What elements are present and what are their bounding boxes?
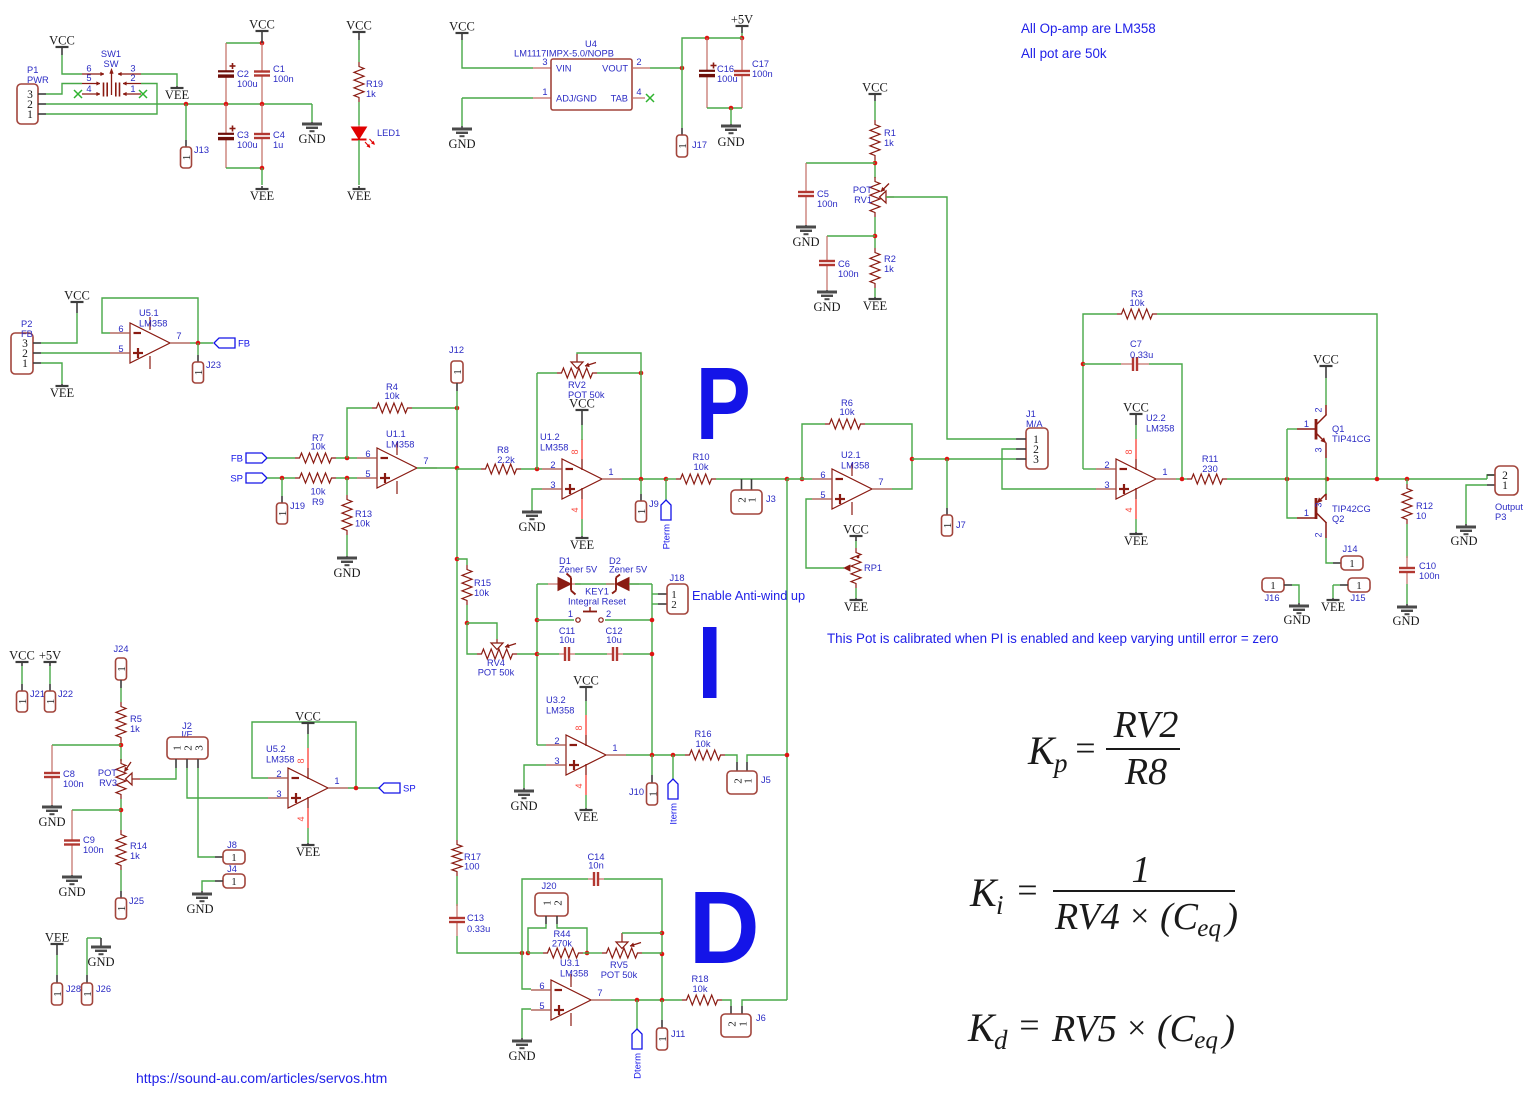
svg-text:=: = bbox=[1017, 1005, 1041, 1045]
svg-text:0.33u: 0.33u bbox=[467, 924, 490, 934]
svg-text:GND: GND bbox=[1283, 613, 1310, 627]
svg-text:1: 1 bbox=[277, 511, 289, 517]
svg-text:J7: J7 bbox=[956, 520, 966, 530]
svg-text:1k: 1k bbox=[884, 264, 894, 274]
svg-text:3: 3 bbox=[130, 64, 135, 74]
svg-text:10u: 10u bbox=[559, 635, 575, 645]
svg-text:VCC: VCC bbox=[1313, 353, 1339, 367]
svg-text:1u: 1u bbox=[273, 140, 283, 150]
svg-text:1: 1 bbox=[608, 467, 613, 477]
svg-text:R8: R8 bbox=[1124, 751, 1167, 793]
svg-text:8: 8 bbox=[1124, 449, 1134, 454]
svg-text:TIP42CG: TIP42CG bbox=[1332, 504, 1371, 514]
svg-text:3: 3 bbox=[550, 480, 555, 490]
svg-text:1: 1 bbox=[542, 87, 547, 97]
svg-text:VCC: VCC bbox=[862, 81, 888, 95]
svg-text:10u: 10u bbox=[606, 635, 622, 645]
svg-text:C16: C16 bbox=[717, 64, 734, 74]
svg-text:J23: J23 bbox=[206, 360, 221, 370]
svg-text:7: 7 bbox=[878, 477, 883, 487]
svg-text:VEE: VEE bbox=[574, 810, 599, 824]
svg-text:VEE: VEE bbox=[296, 845, 321, 859]
svg-text:R19: R19 bbox=[366, 79, 383, 89]
svg-text:J8: J8 bbox=[227, 840, 237, 850]
svg-text:1: 1 bbox=[1502, 480, 1508, 492]
svg-text:1: 1 bbox=[116, 906, 128, 912]
svg-text:C8: C8 bbox=[63, 769, 75, 779]
svg-text:3: 3 bbox=[194, 745, 206, 751]
svg-text:GND: GND bbox=[1392, 614, 1419, 628]
svg-text:+5V: +5V bbox=[731, 13, 753, 27]
svg-text:VEE: VEE bbox=[250, 189, 275, 203]
svg-text:3: 3 bbox=[542, 57, 547, 67]
svg-text:2: 2 bbox=[130, 73, 135, 83]
svg-text:Enable Anti-wind up: Enable Anti-wind up bbox=[692, 588, 805, 603]
svg-text:VOUT: VOUT bbox=[602, 64, 628, 74]
svg-text:1: 1 bbox=[747, 497, 759, 503]
svg-text:GND: GND bbox=[792, 235, 819, 249]
svg-text:10k: 10k bbox=[474, 588, 489, 598]
svg-text:P: P bbox=[696, 346, 751, 461]
svg-text:J1: J1 bbox=[1026, 409, 1036, 419]
svg-text:VCC: VCC bbox=[9, 649, 35, 663]
svg-text:1k: 1k bbox=[884, 138, 894, 148]
svg-text:2: 2 bbox=[1104, 460, 1109, 470]
svg-text:2: 2 bbox=[606, 609, 611, 619]
svg-text:J19: J19 bbox=[290, 501, 305, 511]
svg-text:10k: 10k bbox=[355, 519, 370, 529]
svg-text:1k: 1k bbox=[366, 89, 376, 99]
svg-text:3: 3 bbox=[276, 789, 281, 799]
svg-text:RV4: RV4 bbox=[487, 658, 505, 668]
svg-text:1: 1 bbox=[677, 143, 689, 149]
svg-text:J6: J6 bbox=[756, 1013, 766, 1023]
svg-text:GND: GND bbox=[508, 1049, 535, 1063]
svg-text:R5: R5 bbox=[130, 714, 142, 724]
svg-text:J22: J22 bbox=[58, 689, 73, 699]
svg-text:6: 6 bbox=[365, 449, 370, 459]
svg-text:LM358: LM358 bbox=[540, 443, 568, 453]
svg-text:RV1: RV1 bbox=[854, 195, 872, 205]
svg-text:https://sound-au.com/articles/: https://sound-au.com/articles/servos.htm bbox=[136, 1070, 387, 1086]
svg-text:4: 4 bbox=[86, 84, 91, 94]
svg-text:1: 1 bbox=[1304, 508, 1309, 518]
svg-text:VCC: VCC bbox=[573, 674, 599, 688]
svg-text:This Pot is calibrated when PI: This Pot is calibrated when PI is enable… bbox=[827, 631, 1278, 646]
svg-text:R17: R17 bbox=[464, 852, 481, 862]
svg-text:1: 1 bbox=[27, 109, 33, 121]
svg-text:C9: C9 bbox=[83, 835, 95, 845]
svg-text:J25: J25 bbox=[129, 896, 144, 906]
svg-text:R2: R2 bbox=[884, 254, 896, 264]
svg-text:R9: R9 bbox=[312, 497, 324, 507]
svg-text:J26: J26 bbox=[96, 984, 111, 994]
svg-text:RV2: RV2 bbox=[1113, 704, 1179, 746]
svg-text:5: 5 bbox=[365, 469, 370, 479]
svg-text:1: 1 bbox=[942, 523, 954, 529]
svg-text:VEE: VEE bbox=[1124, 534, 1149, 548]
svg-text:4: 4 bbox=[636, 87, 641, 97]
svg-text:K: K bbox=[969, 870, 999, 915]
svg-text:1: 1 bbox=[1304, 419, 1309, 429]
svg-text:2: 2 bbox=[1314, 407, 1324, 412]
svg-text:J28: J28 bbox=[66, 984, 81, 994]
svg-text:=: = bbox=[1015, 870, 1039, 910]
svg-text:1: 1 bbox=[1349, 558, 1355, 570]
svg-text:3: 3 bbox=[1314, 447, 1324, 452]
svg-text:3: 3 bbox=[1104, 480, 1109, 490]
svg-text:SP: SP bbox=[403, 784, 416, 795]
svg-text:1: 1 bbox=[657, 1036, 669, 1042]
svg-text:4: 4 bbox=[296, 816, 306, 821]
svg-text:×: × bbox=[1128, 898, 1151, 935]
svg-text:1: 1 bbox=[334, 776, 339, 786]
svg-text:270k: 270k bbox=[552, 939, 573, 949]
svg-text:U1.2: U1.2 bbox=[540, 432, 560, 442]
svg-text:VCC: VCC bbox=[1123, 401, 1149, 415]
svg-text:(C: (C bbox=[1160, 896, 1199, 938]
svg-text:LM358: LM358 bbox=[1146, 424, 1174, 434]
svg-text:5: 5 bbox=[539, 1001, 544, 1011]
svg-text:VCC: VCC bbox=[64, 289, 90, 303]
svg-text:8: 8 bbox=[574, 725, 584, 730]
svg-text:GND: GND bbox=[298, 132, 325, 146]
svg-text:Zener 5V: Zener 5V bbox=[559, 565, 598, 575]
svg-text:VEE: VEE bbox=[165, 88, 190, 102]
svg-text:VEE: VEE bbox=[45, 931, 70, 945]
svg-text:J15: J15 bbox=[1351, 593, 1366, 603]
svg-text:1: 1 bbox=[636, 509, 648, 515]
svg-text:LM358: LM358 bbox=[560, 969, 588, 979]
svg-text:2: 2 bbox=[636, 57, 641, 67]
svg-text:VCC: VCC bbox=[49, 34, 75, 48]
svg-text:3: 3 bbox=[554, 756, 559, 766]
svg-text:2.2k: 2.2k bbox=[497, 455, 515, 465]
svg-text:10: 10 bbox=[1416, 511, 1426, 521]
svg-text:D: D bbox=[689, 871, 760, 986]
svg-text:1: 1 bbox=[648, 791, 660, 797]
svg-text:FB: FB bbox=[231, 454, 243, 465]
svg-text:2: 2 bbox=[550, 460, 555, 470]
svg-text:PWR: PWR bbox=[27, 75, 49, 85]
svg-text:10k: 10k bbox=[694, 462, 709, 472]
svg-text:4: 4 bbox=[574, 783, 584, 788]
svg-text:C2: C2 bbox=[237, 69, 249, 79]
svg-text:100: 100 bbox=[464, 862, 480, 872]
svg-text:C6: C6 bbox=[838, 259, 850, 269]
svg-text:×: × bbox=[1125, 1010, 1148, 1047]
svg-text:LM358: LM358 bbox=[139, 319, 167, 329]
svg-text:1: 1 bbox=[568, 609, 573, 619]
svg-text:1: 1 bbox=[1132, 849, 1151, 891]
svg-text:100n: 100n bbox=[817, 199, 838, 209]
svg-text:230: 230 bbox=[1202, 464, 1218, 474]
svg-text:U1.1: U1.1 bbox=[386, 429, 406, 439]
svg-text:100n: 100n bbox=[838, 269, 859, 279]
svg-text:4: 4 bbox=[1124, 507, 1134, 512]
svg-text:4: 4 bbox=[570, 507, 580, 512]
svg-text:100n: 100n bbox=[1419, 571, 1440, 581]
svg-text:J10: J10 bbox=[629, 787, 644, 797]
svg-text:C1: C1 bbox=[273, 64, 285, 74]
svg-text:10k: 10k bbox=[696, 739, 711, 749]
svg-text:Iterm: Iterm bbox=[669, 803, 680, 825]
svg-text:U5.2: U5.2 bbox=[266, 744, 286, 754]
svg-text:Zener 5V: Zener 5V bbox=[609, 565, 648, 575]
svg-text:J9: J9 bbox=[649, 499, 659, 509]
svg-text:POT 50k: POT 50k bbox=[601, 970, 638, 980]
svg-text:Q1: Q1 bbox=[1332, 424, 1344, 434]
svg-text:1: 1 bbox=[738, 1021, 750, 1027]
svg-text:P1: P1 bbox=[27, 65, 38, 75]
svg-text:RV5: RV5 bbox=[610, 960, 628, 970]
svg-text:POT 50k: POT 50k bbox=[568, 390, 605, 400]
svg-text:C10: C10 bbox=[1419, 561, 1436, 571]
svg-text:+5V: +5V bbox=[39, 649, 61, 663]
svg-text:GND: GND bbox=[510, 799, 537, 813]
svg-text:J21: J21 bbox=[30, 689, 45, 699]
svg-text:1: 1 bbox=[193, 370, 205, 376]
svg-text:P3: P3 bbox=[1495, 512, 1506, 522]
svg-text:1: 1 bbox=[116, 666, 128, 672]
svg-text:RP1: RP1 bbox=[864, 563, 882, 573]
svg-text:d: d bbox=[994, 1025, 1008, 1055]
svg-text:C3: C3 bbox=[237, 130, 249, 140]
svg-text:RV2: RV2 bbox=[568, 380, 586, 390]
svg-text:P2: P2 bbox=[21, 319, 32, 329]
svg-text:R16: R16 bbox=[694, 729, 711, 739]
svg-text:): ) bbox=[1220, 1008, 1235, 1050]
svg-text:J20: J20 bbox=[542, 881, 557, 891]
svg-text:VEE: VEE bbox=[347, 189, 372, 203]
svg-text:0.33u: 0.33u bbox=[1130, 350, 1153, 360]
svg-text:R15: R15 bbox=[474, 578, 491, 588]
svg-text:R11: R11 bbox=[1202, 454, 1218, 464]
svg-text:LM358: LM358 bbox=[266, 755, 294, 765]
svg-text:1: 1 bbox=[231, 852, 237, 864]
svg-text:POT 50k: POT 50k bbox=[478, 668, 515, 678]
svg-text:K: K bbox=[1027, 728, 1057, 773]
svg-text:SP: SP bbox=[230, 474, 243, 485]
svg-text:J18: J18 bbox=[670, 573, 685, 583]
svg-text:VEE: VEE bbox=[844, 600, 869, 614]
svg-text:VCC: VCC bbox=[346, 19, 372, 33]
svg-text:LM358: LM358 bbox=[546, 706, 574, 716]
svg-text:1: 1 bbox=[1270, 580, 1276, 592]
svg-text:C5: C5 bbox=[817, 189, 829, 199]
svg-text:3: 3 bbox=[1033, 454, 1039, 466]
svg-text:VEE: VEE bbox=[570, 538, 595, 552]
svg-text:J13: J13 bbox=[194, 145, 209, 155]
svg-text:2: 2 bbox=[553, 900, 565, 906]
svg-text:6: 6 bbox=[820, 470, 825, 480]
svg-text:GND: GND bbox=[186, 902, 213, 916]
svg-text:J24: J24 bbox=[114, 644, 129, 654]
svg-text:eq: eq bbox=[1197, 915, 1221, 942]
svg-text:1: 1 bbox=[17, 699, 29, 705]
svg-text:1: 1 bbox=[1162, 467, 1167, 477]
svg-text:(C: (C bbox=[1157, 1008, 1196, 1050]
svg-text:1: 1 bbox=[82, 991, 94, 997]
svg-text:GND: GND bbox=[717, 135, 744, 149]
svg-text:1: 1 bbox=[22, 358, 28, 370]
svg-text:J16: J16 bbox=[1265, 593, 1280, 603]
svg-text:J11: J11 bbox=[671, 1029, 685, 1039]
svg-text:U3.2: U3.2 bbox=[546, 695, 566, 705]
svg-text:U4: U4 bbox=[585, 39, 597, 49]
svg-text:1: 1 bbox=[130, 84, 135, 94]
svg-text:C7: C7 bbox=[1130, 339, 1142, 349]
svg-text:J4: J4 bbox=[227, 864, 237, 874]
svg-text:100u: 100u bbox=[237, 140, 258, 150]
svg-text:GND: GND bbox=[58, 885, 85, 899]
svg-text:U3.1: U3.1 bbox=[560, 958, 580, 968]
svg-text:3: 3 bbox=[1314, 502, 1324, 507]
svg-text:VCC: VCC bbox=[249, 18, 275, 32]
svg-text:100n: 100n bbox=[752, 69, 773, 79]
svg-text:100u: 100u bbox=[237, 79, 258, 89]
svg-text:GND: GND bbox=[448, 137, 475, 151]
svg-text:LM358: LM358 bbox=[841, 461, 869, 471]
svg-text:All Op-amp are LM358: All Op-amp are LM358 bbox=[1021, 21, 1156, 36]
svg-text:1: 1 bbox=[1356, 580, 1362, 592]
svg-text:LM1117IMPX-5.0/NOPB: LM1117IMPX-5.0/NOPB bbox=[514, 49, 614, 59]
svg-text:TIP41CG: TIP41CG bbox=[1332, 434, 1371, 444]
svg-text:C4: C4 bbox=[273, 130, 285, 140]
svg-text:ADJ/GND: ADJ/GND bbox=[556, 94, 597, 104]
svg-text:VEE: VEE bbox=[1321, 600, 1346, 614]
svg-text:100n: 100n bbox=[83, 845, 104, 855]
svg-text:GND: GND bbox=[333, 566, 360, 580]
svg-text:7: 7 bbox=[423, 456, 428, 466]
svg-text:VIN: VIN bbox=[556, 64, 572, 74]
svg-text:GND: GND bbox=[518, 520, 545, 534]
svg-text:1: 1 bbox=[743, 778, 755, 784]
svg-text:1: 1 bbox=[45, 699, 57, 705]
svg-text:R8: R8 bbox=[497, 445, 509, 455]
svg-text:1: 1 bbox=[452, 369, 464, 375]
svg-text:C17: C17 bbox=[752, 59, 769, 69]
svg-text:8: 8 bbox=[570, 449, 580, 454]
svg-text:J17: J17 bbox=[692, 140, 707, 150]
svg-text:J14: J14 bbox=[1343, 544, 1358, 554]
svg-text:100u: 100u bbox=[717, 74, 738, 84]
svg-text:6: 6 bbox=[539, 981, 544, 991]
svg-text:R13: R13 bbox=[355, 509, 372, 519]
svg-text:U2.2: U2.2 bbox=[1146, 413, 1166, 423]
svg-text:KEY1: KEY1 bbox=[585, 587, 609, 597]
svg-text:U2.1: U2.1 bbox=[841, 450, 861, 460]
svg-text:1k: 1k bbox=[130, 851, 140, 861]
svg-text:8: 8 bbox=[296, 758, 306, 763]
svg-text:100n: 100n bbox=[273, 74, 294, 84]
svg-text:RV3: RV3 bbox=[99, 778, 117, 788]
svg-text:VCC: VCC bbox=[843, 523, 869, 537]
svg-text:2: 2 bbox=[1314, 532, 1324, 537]
svg-text:J5: J5 bbox=[761, 775, 771, 785]
svg-text:6: 6 bbox=[118, 324, 123, 334]
svg-text:POT: POT bbox=[98, 768, 117, 778]
svg-text:2: 2 bbox=[554, 736, 559, 746]
svg-text:RV4: RV4 bbox=[1054, 896, 1120, 938]
svg-text:SW1: SW1 bbox=[101, 49, 121, 59]
svg-text:10k: 10k bbox=[311, 442, 326, 452]
svg-text:Integral Reset: Integral Reset bbox=[568, 597, 626, 607]
svg-text:R12: R12 bbox=[1416, 501, 1433, 511]
svg-text:5: 5 bbox=[820, 490, 825, 500]
svg-text:6: 6 bbox=[86, 64, 91, 74]
svg-text:SW: SW bbox=[104, 59, 119, 69]
svg-text:J12: J12 bbox=[449, 345, 464, 355]
svg-text:LED1: LED1 bbox=[377, 128, 400, 138]
svg-text:J3: J3 bbox=[766, 494, 776, 504]
svg-text:TAB: TAB bbox=[611, 94, 628, 104]
svg-text:100n: 100n bbox=[63, 779, 84, 789]
svg-text:VCC: VCC bbox=[449, 20, 475, 34]
svg-text:1: 1 bbox=[231, 876, 237, 888]
svg-text:1: 1 bbox=[52, 991, 64, 997]
svg-text:All pot are 50k: All pot are 50k bbox=[1021, 46, 1107, 61]
svg-text:1k: 1k bbox=[130, 724, 140, 734]
svg-text:VEE: VEE bbox=[50, 386, 75, 400]
svg-text:7: 7 bbox=[176, 331, 181, 341]
svg-text:2: 2 bbox=[276, 769, 281, 779]
svg-text:Q2: Q2 bbox=[1332, 514, 1344, 524]
svg-text:10k: 10k bbox=[311, 487, 326, 497]
svg-text:): ) bbox=[1223, 896, 1238, 938]
svg-text:VCC: VCC bbox=[295, 710, 321, 724]
svg-text:Output: Output bbox=[1495, 502, 1523, 512]
svg-text:R44: R44 bbox=[553, 929, 570, 939]
svg-text:10k: 10k bbox=[1130, 298, 1145, 308]
svg-text:7: 7 bbox=[597, 988, 602, 998]
svg-text:1: 1 bbox=[181, 155, 193, 161]
svg-text:VEE: VEE bbox=[863, 299, 888, 313]
svg-text:POT: POT bbox=[853, 185, 872, 195]
svg-text:10n: 10n bbox=[588, 861, 604, 871]
svg-text:R14: R14 bbox=[130, 841, 147, 851]
svg-text:eq: eq bbox=[1194, 1027, 1218, 1054]
svg-text:K: K bbox=[967, 1005, 997, 1050]
svg-text:5: 5 bbox=[86, 73, 91, 83]
svg-text:LM358: LM358 bbox=[386, 440, 414, 450]
svg-text:GND: GND bbox=[38, 815, 65, 829]
svg-text:p: p bbox=[1052, 748, 1068, 778]
svg-text:Dterm: Dterm bbox=[633, 1053, 644, 1079]
svg-text:GND: GND bbox=[1450, 534, 1477, 548]
svg-text:GND: GND bbox=[87, 955, 114, 969]
svg-text:GND: GND bbox=[813, 300, 840, 314]
svg-text:1: 1 bbox=[612, 743, 617, 753]
svg-text:10k: 10k bbox=[840, 407, 855, 417]
svg-text:=: = bbox=[1073, 728, 1097, 768]
svg-text:R1: R1 bbox=[884, 128, 896, 138]
svg-text:C13: C13 bbox=[467, 913, 484, 923]
svg-text:U5.1: U5.1 bbox=[139, 308, 159, 318]
svg-text:5: 5 bbox=[118, 344, 123, 354]
svg-text:10k: 10k bbox=[385, 391, 400, 401]
svg-text:i: i bbox=[996, 890, 1004, 920]
svg-text:FB: FB bbox=[238, 339, 250, 350]
svg-text:RV5: RV5 bbox=[1051, 1008, 1117, 1050]
svg-text:Pterm: Pterm bbox=[662, 524, 673, 549]
svg-text:I/E: I/E bbox=[181, 730, 192, 740]
svg-text:2: 2 bbox=[671, 599, 677, 611]
